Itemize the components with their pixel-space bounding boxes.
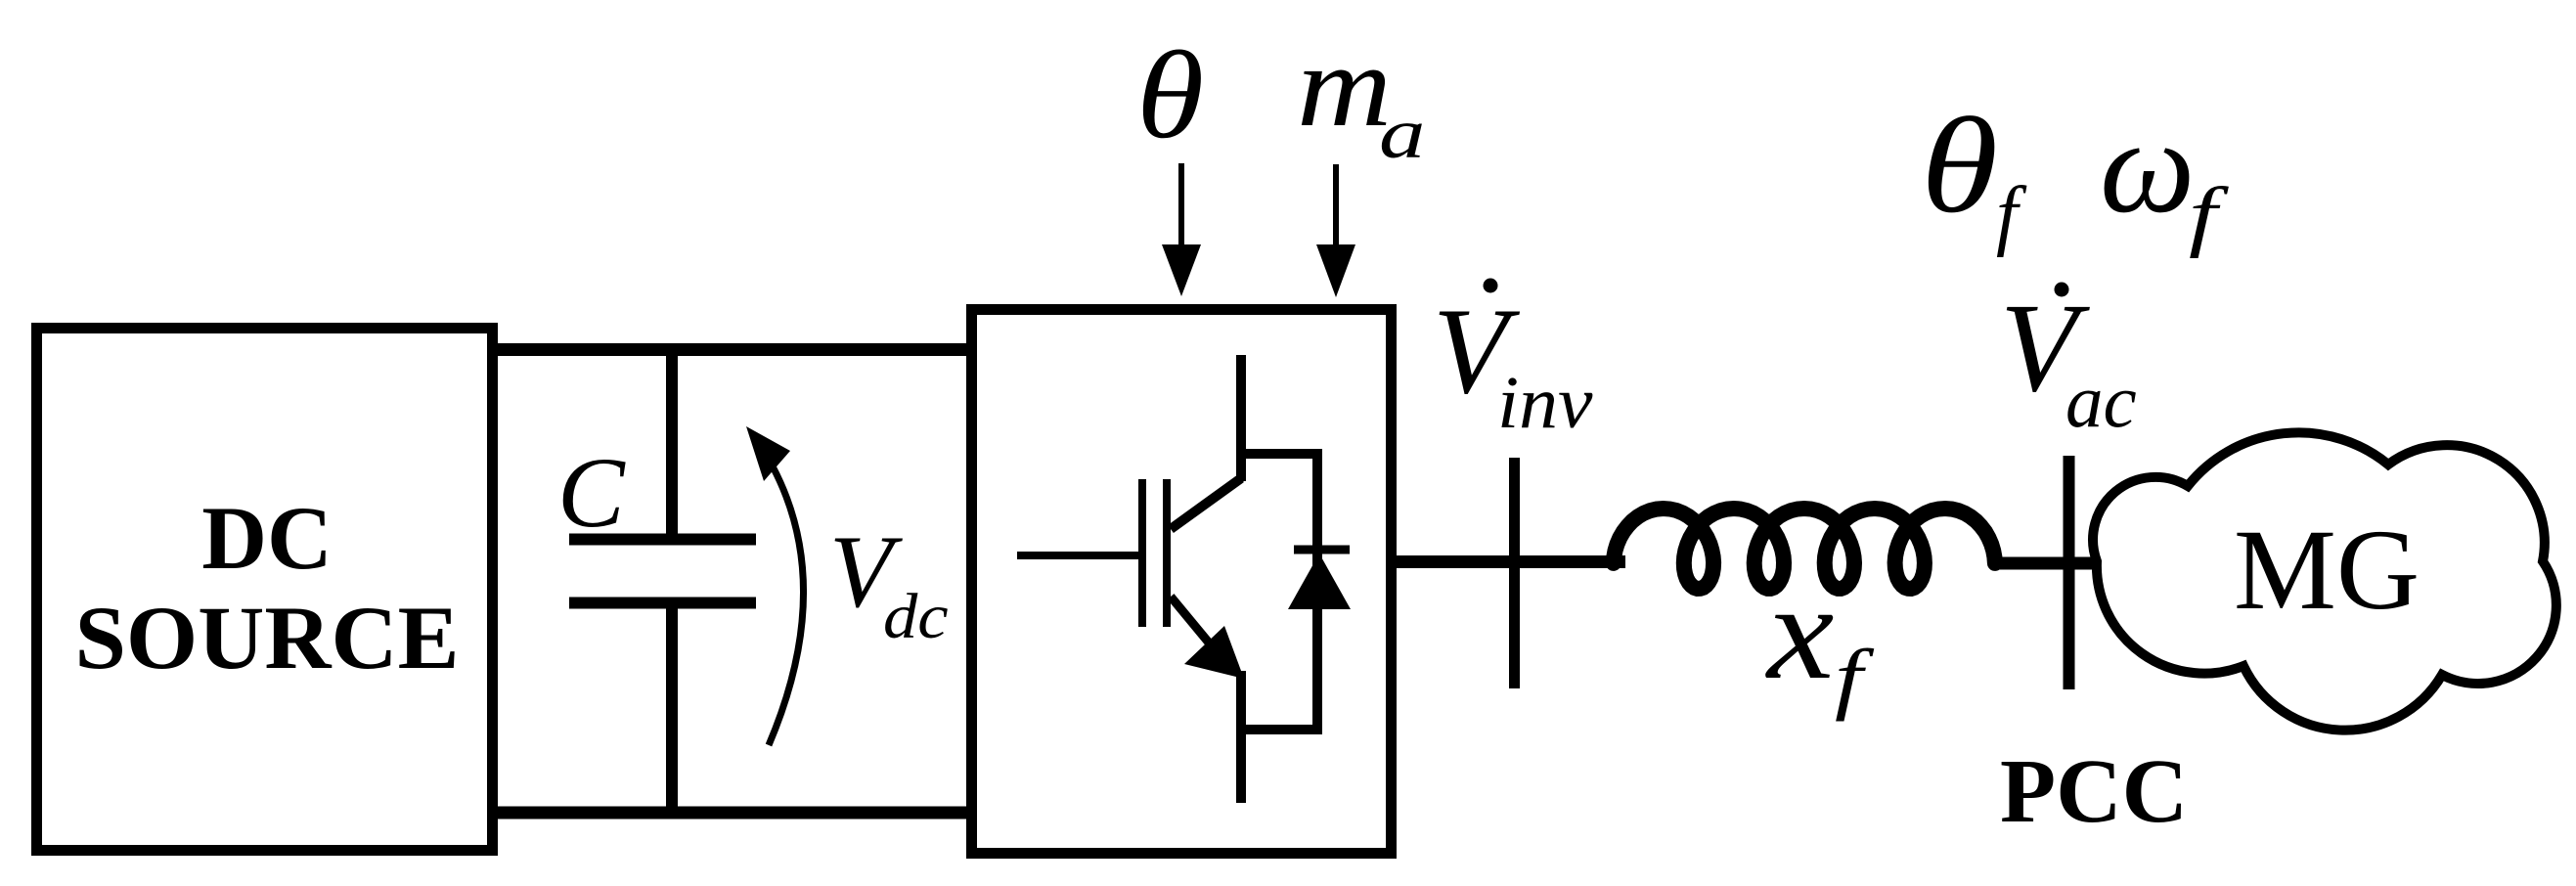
wire inductor to PCC bus bbox=[1990, 557, 2099, 570]
diode cathode bar bbox=[1294, 546, 1350, 554]
capacitor C top plate bbox=[569, 534, 756, 546]
svg-text:a: a bbox=[1379, 95, 1425, 173]
svg-text:ω: ω bbox=[2100, 91, 2195, 241]
IGBT body bar bbox=[1163, 479, 1171, 627]
wire bottom DC bus bbox=[492, 807, 972, 820]
DC source block bbox=[37, 329, 493, 851]
ma input arrow line bbox=[1333, 164, 1339, 246]
svg-text:f: f bbox=[1996, 172, 2027, 258]
svg-text:θ: θ bbox=[1136, 26, 1204, 165]
svg-text:inv: inv bbox=[1497, 362, 1593, 444]
freewheel diode lead bbox=[1312, 449, 1322, 734]
IGBT collector to diode top link bbox=[1236, 449, 1322, 459]
inverter output wire bbox=[1391, 555, 1625, 568]
svg-text:C: C bbox=[557, 437, 626, 549]
IGBT emitter arrowhead bbox=[1184, 626, 1244, 679]
svg-text:SOURCE: SOURCE bbox=[74, 589, 459, 688]
svg-text:f: f bbox=[2189, 172, 2229, 259]
ma input arrowhead bbox=[1316, 244, 1355, 297]
emitter to diode bottom link bbox=[1236, 725, 1322, 734]
IGBT gate bar bbox=[1138, 479, 1146, 627]
PCC bus bar bbox=[2064, 456, 2075, 689]
IGBT collector lead bbox=[1236, 355, 1246, 481]
theta input arrow line bbox=[1178, 163, 1184, 246]
IGBT collector diagonal bbox=[1171, 478, 1241, 529]
label Vac dot bbox=[2055, 283, 2069, 297]
Vdc arc arrowhead bbox=[746, 426, 790, 481]
IGBT gate lead bbox=[1017, 552, 1138, 559]
MG cloud bbox=[2093, 432, 2556, 730]
capacitor C bottom plate bbox=[569, 598, 756, 609]
filter inductor xf coil bbox=[1614, 509, 1995, 589]
svg-text:ac: ac bbox=[2065, 359, 2137, 443]
label Vinv dot bbox=[1484, 279, 1498, 293]
inverter block bbox=[972, 310, 1392, 854]
diode triangle bbox=[1288, 554, 1351, 609]
theta input arrowhead bbox=[1162, 244, 1201, 296]
svg-text:MG: MG bbox=[2234, 506, 2420, 634]
svg-text:x: x bbox=[1765, 555, 1834, 707]
IGBT emitter diagonal bbox=[1171, 597, 1213, 647]
capacitor C bottom lead wire bbox=[666, 598, 678, 819]
IGBT emitter lead bbox=[1236, 671, 1246, 803]
Vdc measurement arc arrow bbox=[769, 466, 804, 745]
wire top DC bus bbox=[492, 343, 972, 356]
svg-text:PCC: PCC bbox=[2000, 741, 2188, 842]
svg-text:m: m bbox=[1297, 21, 1392, 152]
svg-text:DC: DC bbox=[201, 489, 333, 589]
svg-text:f: f bbox=[1835, 634, 1875, 723]
svg-text:θ: θ bbox=[1921, 90, 1998, 242]
capacitor C top lead wire bbox=[666, 344, 678, 545]
Vinv bus bar bbox=[1509, 458, 1520, 688]
svg-text:dc: dc bbox=[883, 580, 949, 651]
